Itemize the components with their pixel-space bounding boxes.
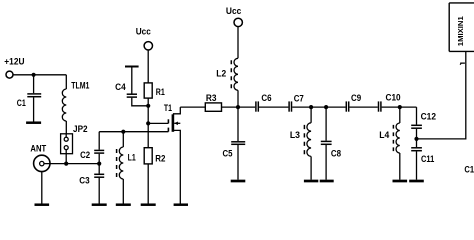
capacitor C7 <box>289 101 311 111</box>
junction C2/C3 node <box>97 162 101 166</box>
ground (L1) <box>116 203 131 206</box>
wire R1 to R2 <box>147 98 149 148</box>
svg-text:C1: C1 <box>17 98 26 108</box>
svg-text:C10: C10 <box>386 92 401 102</box>
svg-text:Ucc: Ucc <box>226 6 241 16</box>
wire C10 node to C12 <box>416 107 418 125</box>
junction L4 node <box>398 105 402 109</box>
ground (C1) <box>26 121 41 124</box>
svg-text:1MIXIN1: 1MIXIN1 <box>456 16 465 46</box>
junction L3 node <box>309 105 313 109</box>
capacitor C1 <box>27 75 41 122</box>
svg-text:C12: C12 <box>421 111 436 121</box>
ground (R2) <box>141 203 156 206</box>
junction on +12U rail at C1 <box>31 73 35 77</box>
junction L2/C5 node <box>236 105 240 109</box>
wire L3 to C8 node <box>311 106 346 108</box>
svg-text:C5: C5 <box>223 149 233 159</box>
svg-text:TLM1: TLM1 <box>71 80 89 90</box>
wire Ucc to R1 <box>147 50 149 83</box>
svg-text:C2: C2 <box>80 150 90 160</box>
inductor L2 <box>231 27 238 108</box>
wire G2 lead <box>148 122 168 124</box>
wire R2 to ground <box>147 164 149 204</box>
node Ucc (middle) <box>234 18 242 26</box>
svg-text:Ucc: Ucc <box>136 27 151 37</box>
svg-text:C4: C4 <box>115 82 126 92</box>
wire C12/C11 node to mixer pin <box>417 52 466 139</box>
node +12U terminal <box>6 71 13 78</box>
connector ANT <box>34 155 50 203</box>
jumper JP2 <box>61 134 73 164</box>
svg-text:L3: L3 <box>290 130 300 140</box>
inductor L3 <box>304 107 311 180</box>
capacitor C10 <box>379 101 417 111</box>
capacitor C9 <box>346 101 378 111</box>
svg-text:L4: L4 <box>379 130 389 140</box>
ground (C5) <box>231 180 246 183</box>
svg-text:C11: C11 <box>421 154 434 164</box>
transistor T1 dual-gate MOSFET <box>168 107 180 203</box>
capacitor C8 <box>321 107 332 180</box>
svg-text:C9: C9 <box>351 93 361 103</box>
svg-text:L2: L2 <box>216 69 226 79</box>
svg-text:R2: R2 <box>155 153 165 163</box>
ground (T1 source) <box>174 203 188 206</box>
wire drain to R3 <box>180 106 205 108</box>
svg-text:C6: C6 <box>261 93 271 103</box>
svg-text:C7: C7 <box>294 93 304 103</box>
svg-text:+12U: +12U <box>4 57 24 67</box>
IC box (mixer) <box>449 3 474 52</box>
capacitor C12 <box>411 125 422 139</box>
pin number 1 <box>460 63 465 65</box>
resistor R3 <box>205 103 221 111</box>
ground (L3) <box>304 180 318 183</box>
wire ANT to C2/C3 node <box>44 163 99 165</box>
svg-text:ANT: ANT <box>30 144 46 154</box>
resistor R2 <box>144 148 152 164</box>
junction C4 tap <box>146 104 150 108</box>
wire +12U rail <box>13 74 66 76</box>
svg-text:L1: L1 <box>128 152 136 162</box>
capacitor C11 <box>411 139 422 180</box>
wire R3 to L2 node <box>222 106 256 108</box>
junction G2 tap <box>146 121 150 125</box>
svg-text:T1: T1 <box>164 103 172 113</box>
junction C12/C11 node <box>414 137 418 141</box>
ground (L4) <box>393 180 408 183</box>
svg-text:C13: C13 <box>464 164 474 174</box>
svg-text:R3: R3 <box>206 93 217 103</box>
junction JP2/ANT wire <box>64 162 68 166</box>
capacitor C4 <box>125 67 148 106</box>
capacitor C5 <box>231 107 245 180</box>
node Ucc (left) <box>144 42 152 50</box>
capacitor C3 <box>94 164 104 204</box>
capacitor C6 <box>256 101 289 111</box>
svg-text:R1: R1 <box>156 87 165 97</box>
inductor TLM1 <box>62 75 66 134</box>
inductor L4 <box>393 107 399 180</box>
junction C8 node <box>324 105 328 109</box>
svg-text:C3: C3 <box>79 176 89 186</box>
junction L1 on gate line <box>121 130 125 134</box>
ground (C11) <box>409 180 424 183</box>
ground (C3) <box>92 203 107 206</box>
ground (ANT) <box>35 203 50 206</box>
ground (C8) <box>320 180 334 183</box>
capacitor C2 <box>94 132 104 164</box>
resistor R1 <box>144 83 152 98</box>
inductor L1 <box>117 132 124 204</box>
svg-text:C8: C8 <box>331 148 341 158</box>
svg-text:JP2: JP2 <box>73 124 88 134</box>
wire gate G1 line <box>99 131 168 133</box>
